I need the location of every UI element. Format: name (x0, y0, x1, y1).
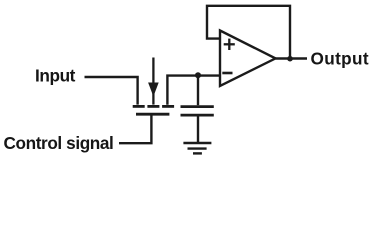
drain contact bar (133, 105, 145, 108)
transistor Q1 MOSFET switch (133, 58, 174, 115)
bulk arrow (points down into channel) (152, 58, 154, 105)
plus (non-inverting input marker) (224, 43, 235, 45)
source contact bar (162, 105, 174, 108)
wire switch source to hold node and op-amp inverting input (167, 76, 219, 105)
minus (inverting input marker) (222, 72, 232, 75)
wire input to switch (85, 77, 138, 105)
node A hold-node junction dot (195, 72, 201, 78)
wire gate to control signal (119, 115, 151, 144)
bulk contact bar (147, 105, 159, 108)
wire output (276, 57, 308, 59)
capacitor C1 (hold capacitor) (181, 76, 214, 143)
svg-text:Output: Output (311, 48, 369, 68)
ground (183, 143, 211, 153)
wire feedback from output to non-inverting input (207, 6, 290, 58)
svg-text:Control signal: Control signal (4, 133, 114, 153)
output junction dot (287, 56, 293, 62)
gate bar (136, 113, 169, 116)
svg-text:Input: Input (35, 66, 76, 86)
op-amp U1 (220, 31, 276, 87)
